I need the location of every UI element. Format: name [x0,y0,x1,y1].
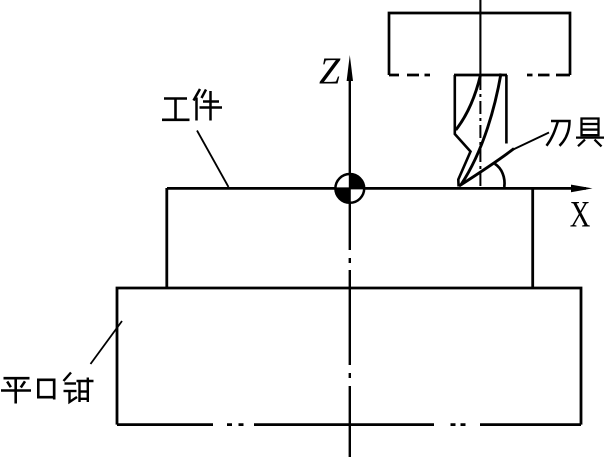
drill flute curve upper [456,75,481,130]
leader line for workpiece label [197,131,229,188]
label 具 (ju) [576,119,604,147]
Z axis line [349,79,351,457]
vise (machine vise) top and sides [117,288,581,425]
spindle block bottom edge (phantom dash-dot line) [389,74,570,77]
label 工 (gong) [162,99,190,120]
label 钳 (qian) [64,373,94,403]
X axis label [570,195,591,235]
svg-text:Z: Z [319,50,341,92]
label 平 (ping) [1,378,31,403]
drill flute curve long [461,74,501,186]
vise bottom edge (phantom long-dash double-dot) [117,423,581,426]
X axis line (also workpiece top edge) [167,187,586,190]
spindle block (machine head) [389,13,570,75]
tool centerline (dash-dot through drill) [479,77,481,187]
drill point arc (cutting lip) [495,164,505,187]
leader line for vise label [91,321,123,364]
X axis arrowhead [571,185,593,193]
tool (drill) outline right side [505,75,508,144]
label 口 (kou) [38,379,54,400]
label 件 (jian) [194,89,223,121]
leader line for tool label [510,133,549,152]
svg-text:X: X [570,195,591,235]
workpiece rectangle sides [167,188,533,288]
label 刀 (dao) [547,121,570,146]
tool (drill) outline left side [455,75,471,187]
Z axis arrowhead [347,55,353,81]
origin symbol (workpiece zero) [335,174,364,203]
drill point sweep curve [459,149,514,187]
spindle centerline above and through block [479,0,481,75]
